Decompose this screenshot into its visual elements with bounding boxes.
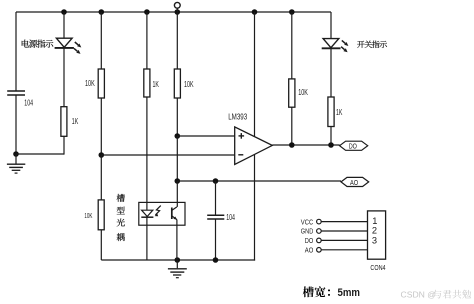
resistor R2 10K bbox=[98, 69, 104, 98]
capacitor C2 104 plates bbox=[207, 215, 224, 219]
port DO flag bbox=[340, 141, 368, 150]
resistor R4 10K bbox=[174, 69, 180, 98]
capacitor C1 104 plates bbox=[7, 91, 25, 95]
node rail-R4 VCC terminal bbox=[175, 9, 181, 15]
optocoupler U2 box bbox=[139, 202, 185, 225]
wire AO to CON4 bbox=[321, 249, 367, 251]
svg-text:DO: DO bbox=[305, 236, 314, 245]
node rail-R5 bbox=[289, 9, 295, 15]
label 电源指示 bbox=[22, 40, 54, 48]
label R2 10K bbox=[85, 79, 95, 88]
svg-text:1K: 1K bbox=[72, 117, 79, 126]
svg-text:10K: 10K bbox=[85, 79, 95, 88]
svg-text:1K: 1K bbox=[336, 108, 343, 117]
node rail-R2 bbox=[99, 9, 105, 15]
terminal DO circle bbox=[317, 238, 322, 243]
node AO junction bbox=[175, 178, 181, 184]
label U1 LM393 bbox=[228, 113, 247, 122]
resistor R5 10K bbox=[289, 79, 295, 107]
LED D2 switch indicator bbox=[322, 39, 349, 53]
label R3 1K bbox=[153, 80, 160, 89]
wire rail to R5 bbox=[291, 12, 293, 79]
label pin DO bbox=[305, 236, 314, 245]
label pin 3 bbox=[372, 235, 377, 245]
svg-text:LM393: LM393 bbox=[228, 113, 247, 122]
node plus-input junction bbox=[175, 133, 181, 139]
label R4 10K bbox=[184, 80, 194, 89]
wire C2 to bottom rail bbox=[215, 219, 217, 260]
node rail-R3 bbox=[144, 9, 150, 15]
node rail power-drop bbox=[252, 9, 258, 15]
watermark CSDN bbox=[401, 289, 472, 299]
label 开关指示 bbox=[357, 41, 387, 48]
svg-text:AO: AO bbox=[305, 246, 314, 255]
wire non-inverting input bbox=[177, 135, 234, 137]
wire LED/R bottom to ground node bbox=[16, 136, 64, 154]
wire VCC top rail bbox=[16, 11, 331, 13]
optocoupler U2 LED bbox=[141, 210, 153, 217]
label pin 1 bbox=[372, 216, 377, 226]
wire plus node to AO node bbox=[176, 136, 178, 181]
svg-text:5mm: 5mm bbox=[338, 287, 361, 299]
ground GND2 (bottom) bbox=[168, 260, 187, 278]
node minus-input junction bbox=[99, 152, 105, 158]
svg-text:CSDN @: CSDN @ bbox=[401, 289, 436, 299]
optocoupler U2 light arrow bbox=[155, 206, 161, 217]
terminal VCC circle bbox=[317, 219, 322, 224]
wire R6 to DO line bbox=[330, 127, 332, 146]
label R6 1K bbox=[336, 108, 343, 117]
wire op-amp V+ drop bbox=[254, 12, 256, 137]
wire minus node to R7 bbox=[100, 155, 102, 200]
label R7 10K bbox=[84, 211, 92, 220]
wire optocoupler LED cathode to rail bbox=[146, 217, 148, 260]
label pin VCC bbox=[301, 217, 314, 226]
wire rail to R2 bbox=[100, 12, 102, 69]
label pin AO bbox=[305, 246, 314, 255]
connector CON4 box bbox=[368, 211, 386, 259]
svg-text:2: 2 bbox=[372, 226, 377, 236]
wire R4 to plus node bbox=[176, 98, 178, 136]
label pin 2 bbox=[372, 226, 377, 236]
terminal AO circle bbox=[317, 248, 322, 253]
node bottom-rail ground junction bbox=[175, 257, 181, 263]
wire DO to CON4 bbox=[321, 239, 367, 241]
svg-text:AO: AO bbox=[350, 178, 358, 187]
wire R7 to bottom rail bbox=[100, 230, 102, 260]
wire op-amp output DO line bbox=[272, 144, 339, 146]
label C1 104 bbox=[24, 99, 33, 108]
svg-text:104: 104 bbox=[226, 213, 235, 222]
label R1 1K bbox=[72, 117, 79, 126]
svg-text:CON4: CON4 bbox=[370, 263, 385, 272]
node AO-C2 junction bbox=[213, 178, 219, 184]
wire AO node to phototransistor bbox=[176, 181, 178, 207]
op-amp U1 LM393 bbox=[235, 127, 273, 165]
svg-text:10K: 10K bbox=[184, 80, 194, 89]
resistor R6 1K bbox=[328, 97, 334, 127]
label C2 104 bbox=[226, 213, 235, 222]
svg-text:GND: GND bbox=[301, 227, 314, 236]
wire rail to LED D2 bbox=[330, 12, 332, 39]
wire op-amp V- to bottom rail bbox=[254, 154, 256, 260]
wire GND to CON4 bbox=[321, 230, 367, 232]
node C2-ground junction bbox=[213, 257, 219, 263]
svg-text:1K: 1K bbox=[153, 80, 160, 89]
label 槽型光耦 bbox=[117, 194, 125, 241]
optocoupler U2 phototransistor bbox=[172, 207, 177, 220]
wire R2 to minus node bbox=[100, 98, 102, 155]
node GND-left junction bbox=[13, 151, 19, 157]
wire left branch vertical bbox=[15, 12, 17, 154]
label R5 10K bbox=[298, 88, 308, 97]
wire LED D1 to R1 bbox=[63, 48, 65, 107]
wire VCC to CON4 bbox=[321, 221, 367, 223]
wire rail to LED D1 bbox=[63, 12, 65, 39]
svg-text:104: 104 bbox=[24, 99, 33, 108]
wire rail to R4 bbox=[176, 12, 178, 69]
svg-text:VCC: VCC bbox=[301, 217, 314, 226]
label pin GND bbox=[301, 227, 314, 236]
svg-text:3: 3 bbox=[372, 235, 377, 245]
node rail-D1 bbox=[61, 9, 67, 15]
terminal GND circle bbox=[317, 229, 322, 234]
wire inverting input bbox=[101, 154, 234, 156]
label 槽宽：5mm bbox=[303, 286, 360, 299]
svg-text:DO: DO bbox=[349, 142, 357, 151]
wire phototransistor emitter to ground rail bbox=[176, 220, 178, 260]
resistor R1 1K bbox=[61, 107, 67, 137]
wire bottom ground rail bbox=[101, 259, 255, 261]
wire AO node to C2 bbox=[215, 181, 217, 215]
terminal VCC circle bbox=[174, 2, 180, 12]
wire rail to R3 bbox=[146, 12, 148, 69]
port AO flag bbox=[341, 177, 369, 186]
svg-text:10K: 10K bbox=[84, 211, 92, 220]
node DO-R6 junction bbox=[328, 142, 334, 148]
node DO-R5 junction bbox=[289, 142, 295, 148]
wire R5 to DO line bbox=[291, 107, 293, 145]
label CON4 bbox=[370, 263, 385, 272]
wire R3 to optocoupler LED bbox=[146, 97, 148, 210]
wire LED D2 to R6 bbox=[330, 48, 332, 97]
resistor R7 10K bbox=[98, 200, 104, 230]
resistor R3 1K bbox=[144, 69, 150, 97]
LED D1 power indicator bbox=[55, 38, 82, 54]
svg-text:10K: 10K bbox=[298, 88, 308, 97]
ground GND1 (left) bbox=[7, 154, 25, 173]
wire AO line bbox=[177, 180, 341, 182]
